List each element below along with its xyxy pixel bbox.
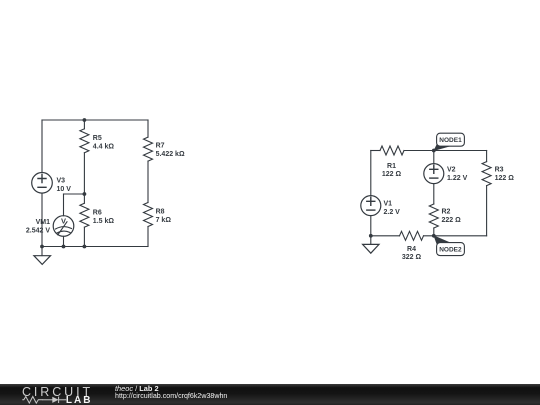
svg-text:V3: V3 <box>57 177 66 184</box>
wire: top rail right of R1 <box>404 150 487 152</box>
label R8 value <box>156 209 172 225</box>
svg-text:NODE1: NODE1 <box>439 137 462 144</box>
ground (left circuit) <box>34 247 51 265</box>
svg-text:2.2 V: 2.2 V <box>384 209 401 216</box>
svg-text:122 Ω: 122 Ω <box>495 175 515 182</box>
resistor R4 <box>400 231 424 240</box>
wire: bottom rail right of R4 <box>424 235 487 237</box>
svg-text:LAB: LAB <box>66 395 93 405</box>
svg-text:R5: R5 <box>93 135 102 142</box>
label R3 value <box>495 167 515 183</box>
label R4 value <box>402 246 422 261</box>
node NODE1 <box>432 133 465 152</box>
wire: right circuit top rail <box>371 150 380 152</box>
svg-text:5.422 kΩ: 5.422 kΩ <box>156 151 185 158</box>
resistor R7 <box>144 120 153 161</box>
voltage source V2 <box>424 164 444 184</box>
wire: R3 top lead <box>486 151 488 162</box>
label V3 value <box>57 177 72 193</box>
label V2 value <box>447 167 468 183</box>
svg-text:R8: R8 <box>156 209 165 216</box>
CircuitLab logo resistor-diode symbol <box>22 397 66 404</box>
label R6 value <box>93 210 115 226</box>
svg-text:10 V: 10 V <box>57 186 72 193</box>
resistor R2 <box>429 204 438 228</box>
wire: left circuit top rail <box>42 119 148 121</box>
wire: V1 bottom lead <box>370 216 372 236</box>
voltage source V1 <box>361 196 381 216</box>
svg-text:R6: R6 <box>93 210 102 217</box>
svg-text:222 Ω: 222 Ω <box>442 217 462 224</box>
svg-text:R2: R2 <box>442 209 451 216</box>
svg-text:1.22 V: 1.22 V <box>447 175 468 182</box>
wire: V2 top lead <box>433 151 435 164</box>
node NODE2 <box>432 234 465 256</box>
svg-text:1.5 kΩ: 1.5 kΩ <box>93 218 115 225</box>
node: junction dot at V1/R4/ground corner <box>369 234 373 238</box>
wire: left circuit bottom rail <box>42 246 148 248</box>
label R5 value <box>93 135 115 151</box>
svg-text:R3: R3 <box>495 167 504 174</box>
svg-text:322 Ω: 322 Ω <box>402 254 422 261</box>
svg-text:NODE2: NODE2 <box>439 247 462 254</box>
label R7 value <box>156 143 185 159</box>
node: junction dots left circuit <box>40 118 86 248</box>
svg-text:2.542 V: 2.542 V <box>26 227 50 234</box>
resistor R5 <box>80 120 89 194</box>
wire: V2 to R2 <box>433 184 435 204</box>
wire: bottom rail left of R4 <box>371 235 400 237</box>
wire: V3 top lead <box>41 120 43 173</box>
ground (right circuit) <box>363 236 379 253</box>
svg-text:V1: V1 <box>384 200 393 207</box>
svg-text:V: V <box>61 216 66 225</box>
wire: V3 bottom lead <box>41 193 43 246</box>
voltmeter VM1 <box>53 194 84 247</box>
svg-text:R4: R4 <box>407 246 416 253</box>
voltage source V3 <box>32 173 53 194</box>
wire: R2 bottom lead <box>433 228 435 236</box>
svg-text:V2: V2 <box>447 167 456 174</box>
resistor R1 <box>380 146 404 155</box>
label R2 value <box>442 209 462 225</box>
resistor R3 <box>482 162 491 186</box>
svg-text:4.4 kΩ: 4.4 kΩ <box>93 144 115 151</box>
svg-text:VM1: VM1 <box>36 219 51 226</box>
svg-text:122 Ω: 122 Ω <box>382 171 402 178</box>
label V1 value <box>384 200 401 216</box>
resistor R8 <box>144 161 153 246</box>
wire: R3 bottom lead <box>486 186 488 236</box>
wire: V1 top lead <box>370 151 372 196</box>
svg-text:R7: R7 <box>156 143 165 150</box>
svg-text:R1: R1 <box>387 163 396 170</box>
label R1 value <box>382 163 402 178</box>
label VM1 value <box>26 219 50 235</box>
resistor R6 <box>80 194 89 247</box>
svg-text:7 kΩ: 7 kΩ <box>156 217 172 224</box>
